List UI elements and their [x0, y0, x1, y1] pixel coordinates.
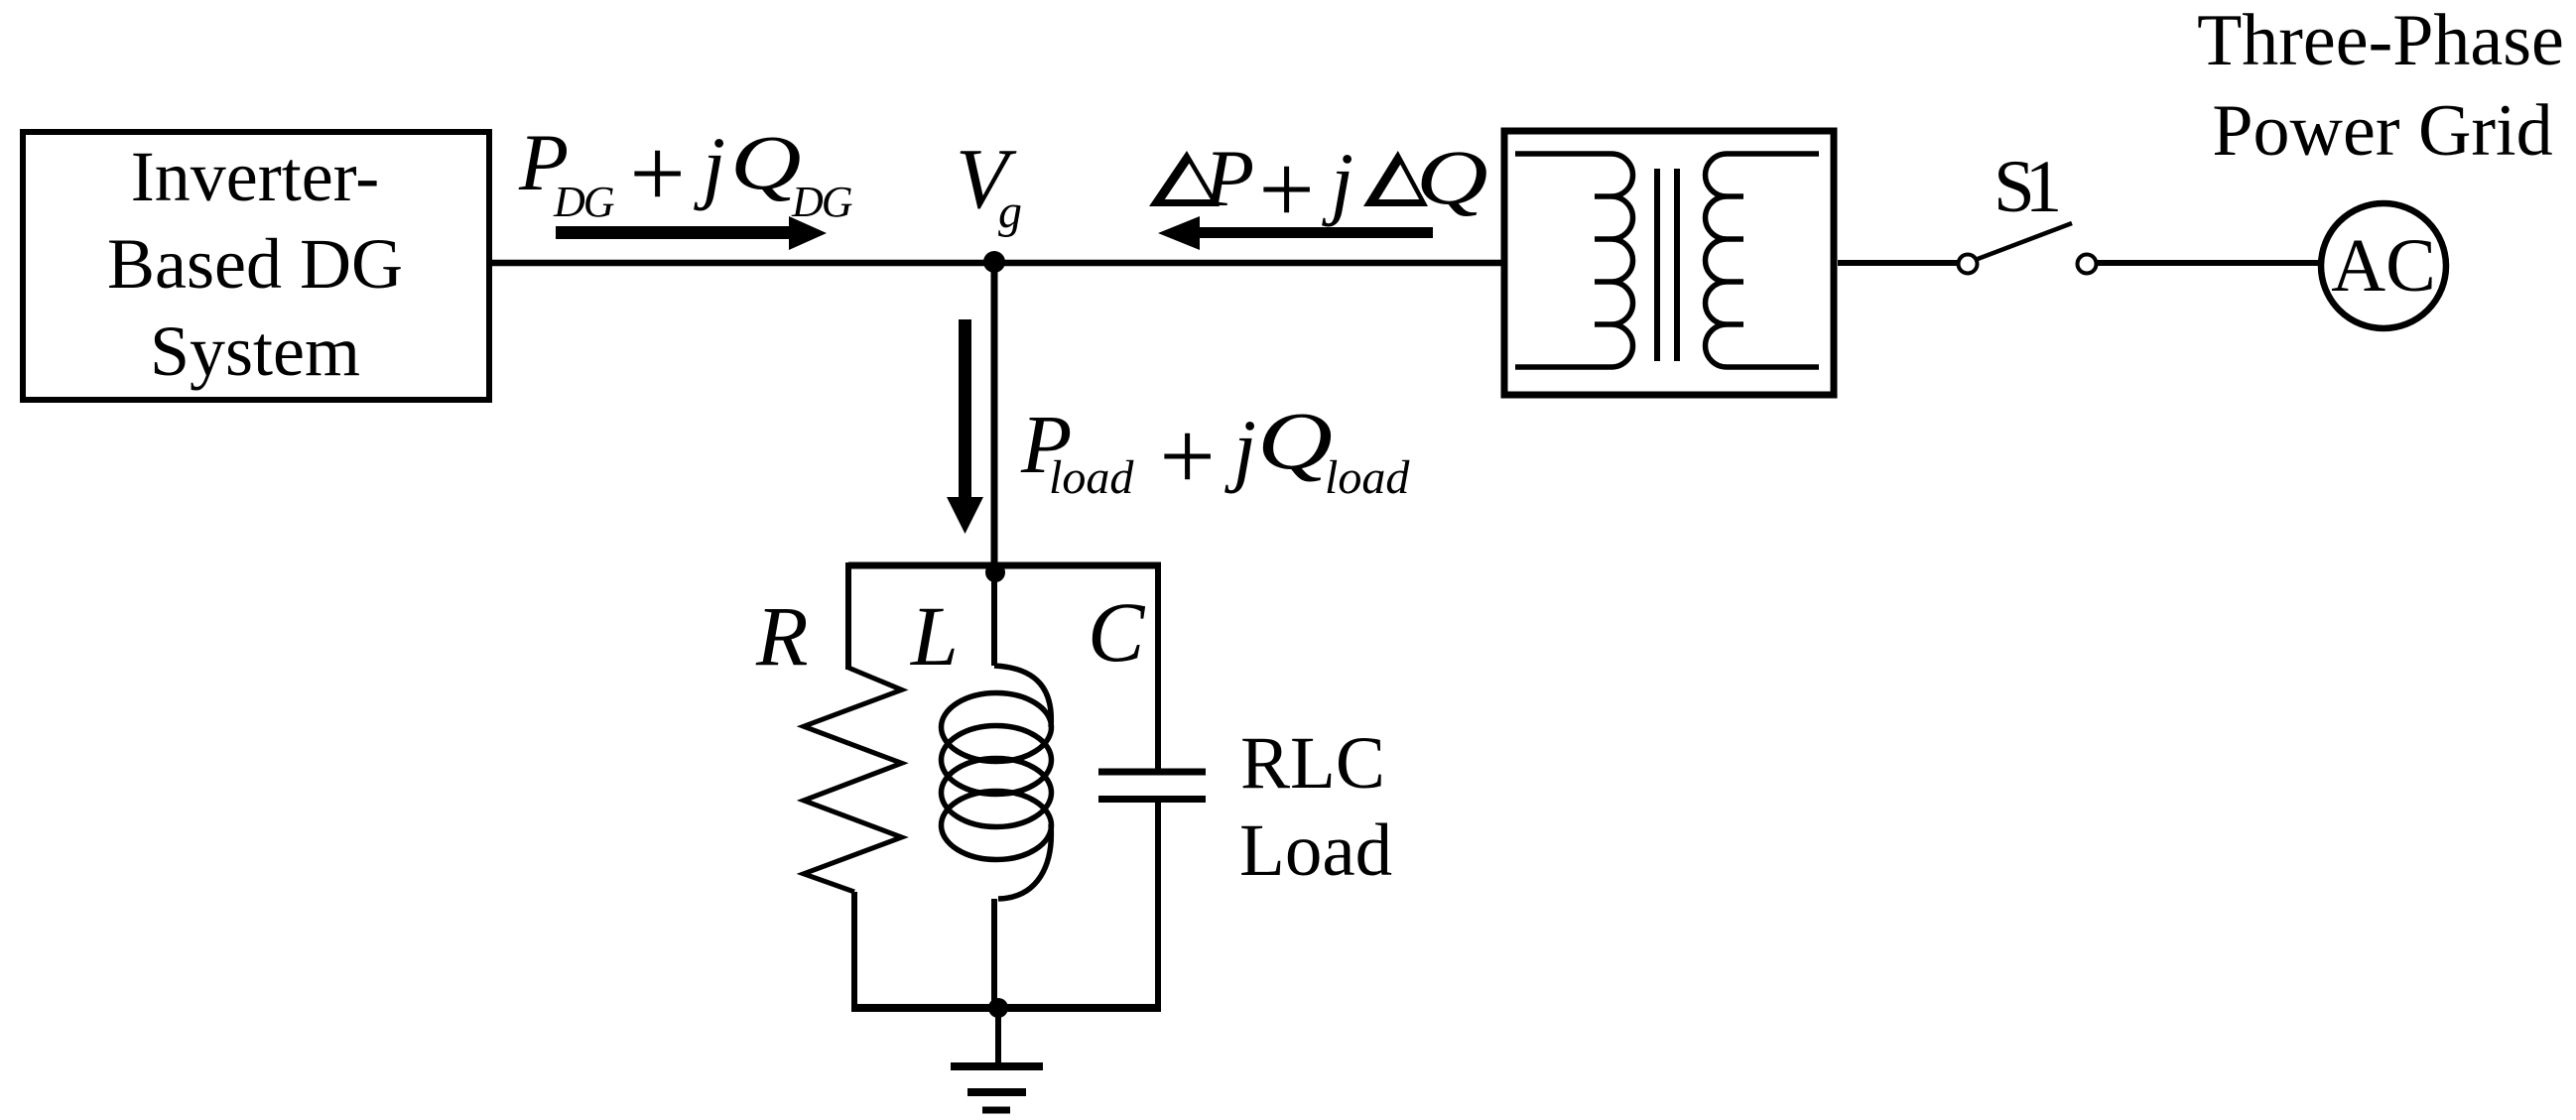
node RLC top junction dot — [985, 562, 1005, 582]
svg-text:Three-Phase: Three-Phase — [2197, 0, 2564, 81]
label Three-Phase Power Grid — [2197, 0, 2564, 172]
svg-text:Power Grid: Power Grid — [2212, 90, 2552, 172]
svg-text:+: + — [1153, 401, 1220, 511]
wire: C branch top — [1155, 562, 1161, 772]
inductor L coil — [942, 666, 1052, 899]
switch S1 — [1959, 223, 2097, 274]
arrow P_DG flow (rightward) — [556, 216, 827, 250]
transformer T1 box — [1504, 131, 1834, 395]
svg-text:P: P — [1204, 133, 1254, 223]
svg-text:DG: DG — [791, 178, 852, 226]
DG system block U1 — [23, 132, 489, 400]
AC source (three-phase grid) — [2321, 203, 2446, 328]
svg-text:System: System — [150, 311, 360, 391]
svg-text:+: + — [623, 118, 690, 228]
svg-text:R: R — [755, 588, 809, 684]
ground symbol — [951, 1066, 1043, 1110]
svg-text:g: g — [998, 186, 1022, 238]
wire: transformer to switch S1 — [1838, 260, 1957, 266]
wire: junction to ground — [995, 1008, 1001, 1066]
node ground junction dot — [988, 998, 1008, 1018]
wire: DG box to transformer (grid bus) — [491, 260, 1504, 267]
wire: L branch top — [991, 572, 997, 666]
transformer core — [1657, 169, 1677, 361]
node Vg junction dot — [983, 251, 1005, 273]
svg-text:C: C — [1088, 584, 1146, 680]
label P_load + jQ_load — [1020, 397, 1410, 511]
svg-text:S1: S1 — [1994, 146, 2058, 228]
svg-text:L: L — [909, 588, 959, 684]
svg-text:RLC: RLC — [1240, 722, 1385, 805]
svg-text:Q: Q — [1416, 136, 1488, 221]
wire: RLC bottom rail — [851, 1004, 1161, 1012]
wire: L branch bottom — [991, 899, 997, 1008]
svg-text:AC: AC — [2331, 224, 2436, 308]
svg-text:load: load — [1325, 451, 1410, 504]
svg-text:DG: DG — [553, 178, 614, 226]
wire: switch S1 to AC source — [2098, 260, 2321, 266]
label Inverter-Based DG System — [107, 137, 403, 391]
transformer secondary winding — [1705, 154, 1819, 367]
resistor R zigzag — [804, 668, 902, 892]
svg-text:Q: Q — [1257, 397, 1333, 487]
svg-text:load: load — [1049, 451, 1134, 504]
wire: R branch top — [845, 562, 851, 670]
capacitor C plates — [1098, 772, 1206, 800]
wire: R branch bottom — [851, 892, 857, 1011]
arrow P_load flow (downward) — [947, 319, 983, 534]
svg-text:Load: Load — [1239, 809, 1392, 892]
wire: C branch bottom — [1155, 799, 1161, 1011]
svg-text:Based DG: Based DG — [107, 224, 403, 304]
label P_DG + jQ_DG — [518, 117, 852, 228]
svg-text:Q: Q — [730, 121, 802, 206]
label Vg — [956, 130, 1022, 238]
transformer primary winding — [1515, 154, 1633, 367]
wire: Vg node down to RLC load — [991, 263, 998, 572]
wire: RLC top rail — [848, 562, 1161, 569]
label deltaP + j deltaQ — [1149, 133, 1488, 244]
arrow deltaP flow (leftward) — [1158, 216, 1433, 250]
label RLC Load — [1239, 722, 1392, 892]
svg-text:Inverter-: Inverter- — [131, 137, 379, 216]
